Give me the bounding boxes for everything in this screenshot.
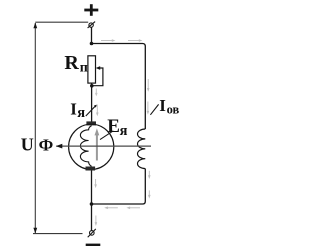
rheostat wiper arm: [93, 68, 103, 86]
svg-text:Ф: Ф: [39, 135, 54, 154]
plus terminal polarity label: [84, 4, 98, 16]
current direction arrow (gray, right wire at Iov): [147, 102, 150, 115]
current direction arrow (gray, bottom wire right, pointing left): [126, 207, 140, 210]
armature machine M (circle): [69, 124, 114, 169]
node (top junction): [90, 42, 94, 46]
armature winding (coil inside circle): [80, 126, 91, 167]
current direction arrow (gray, right wire above corner 2): [148, 190, 151, 198]
wire (terminal to top node): [91, 27, 93, 43]
svg-text:U: U: [21, 135, 34, 155]
current arrow Iов (slash): [150, 104, 158, 114]
current direction arrow (gray, top wire left): [101, 39, 116, 42]
wire (bottom brush to bottom node): [91, 171, 93, 205]
inductor L (field winding OV): [138, 129, 146, 169]
extension line (top, to + terminal): [35, 21, 88, 23]
wire (bottom node to bottom terminal): [91, 204, 93, 231]
leader line (Eя label to arrow): [100, 131, 113, 140]
current direction arrow (gray, top wire right): [128, 39, 143, 42]
current direction arrow (gray, below rheostat): [95, 89, 98, 97]
current direction arrow (gray, right wire upper): [147, 79, 150, 92]
svg-text:я: я: [120, 123, 128, 139]
node (wiper tap junction): [90, 84, 94, 88]
current direction arrow (gray, below machine): [94, 179, 97, 188]
svg-text:я: я: [77, 105, 85, 121]
arrowhead (U top): [33, 23, 37, 29]
current arrow Iя (slash across wire): [86, 105, 97, 116]
svg-text:п: п: [80, 60, 88, 75]
current direction arrow (gray, to - terminal): [95, 216, 98, 227]
wire (inductor to bottom corner and bottom horizontal): [92, 169, 146, 204]
brush (top): [86, 121, 96, 125]
terminal (bottom clamp): [88, 229, 96, 237]
svg-text:ов: ов: [167, 103, 180, 117]
current direction arrow (gray, bottom wire left, pointing left): [104, 207, 118, 210]
wire (top horizontal + right branch down to inductor): [92, 44, 146, 130]
flux axis line (through machine to field winding): [56, 145, 151, 147]
brush (bottom): [86, 167, 96, 171]
arrowhead (U bottom): [33, 228, 37, 234]
arrowhead (flux, pointing left): [56, 144, 63, 149]
current direction arrow (gray, armature wire): [96, 105, 99, 117]
terminal (top clamp): [88, 22, 96, 28]
svg-text:E: E: [107, 116, 120, 137]
svg-text:R: R: [64, 52, 79, 74]
wire (rheostat to top brush): [91, 83, 93, 122]
voltage U dimension line: [34, 23, 36, 233]
current direction arrow (gray, right wire above corner 1): [148, 171, 151, 179]
resistor Rп (rheostat body): [88, 56, 96, 83]
minus terminal polarity label: [86, 244, 101, 246]
extension line (bottom, to - terminal): [33, 233, 83, 235]
node (bottom junction): [90, 202, 94, 206]
EMF arrow Eя (gray, inside machine): [95, 128, 100, 160]
svg-text:I: I: [159, 96, 166, 115]
